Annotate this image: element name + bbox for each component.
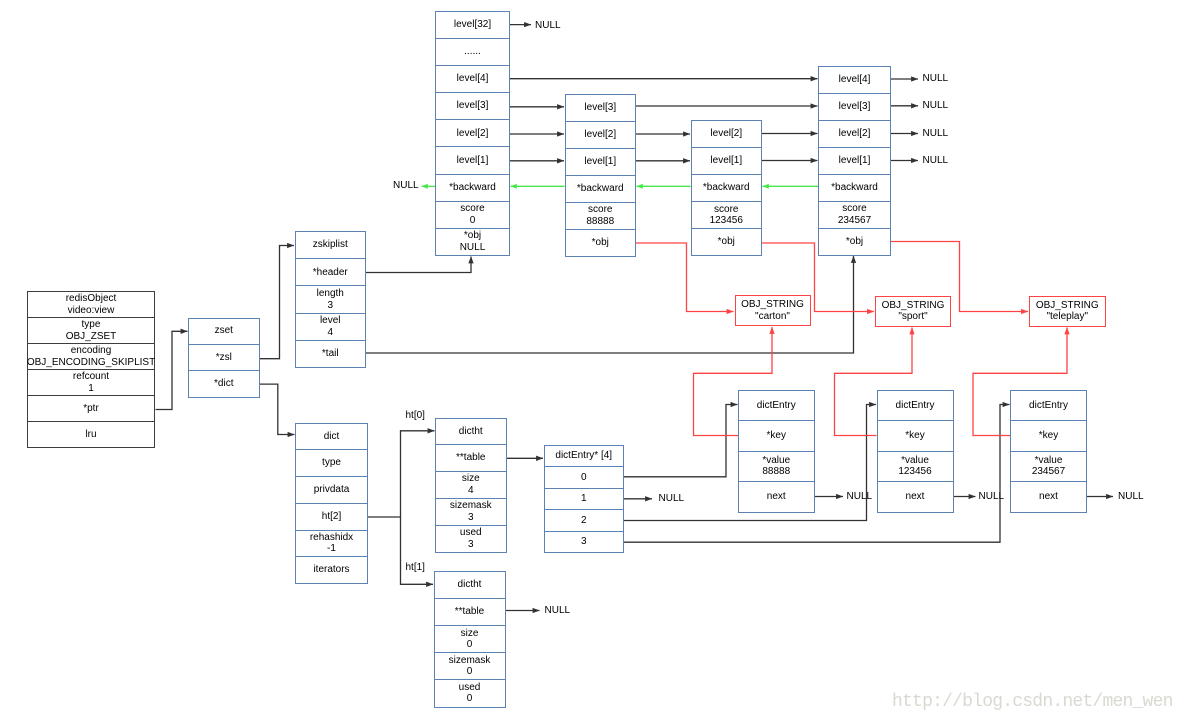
wire array row3 to dictEntry3 <box>624 405 1010 543</box>
node skiplist node2 score 88888 <box>565 94 637 257</box>
wire node1 backward to NULL <box>422 185 436 187</box>
wire dictEntry3 key to teleplay <box>973 328 1067 436</box>
wire node3 obj to OBJ_STRING sport <box>762 243 874 312</box>
wire node1 level[2] to node2 level[2] <box>510 133 564 135</box>
wire array row2 to dictEntry2 <box>624 405 876 521</box>
wire node2 level[2] to node3 level[2] <box>636 133 690 135</box>
wire node4 obj to OBJ_STRING teleplay <box>891 242 1028 312</box>
wire *tail to node4 bottom <box>366 256 854 353</box>
node zset <box>188 318 260 398</box>
label NULL node4 level4 <box>923 74 949 84</box>
wire node2 level[3] to node4 level[3] <box>636 105 818 107</box>
node zskiplist <box>295 231 367 368</box>
node skiplist header node1 <box>435 11 510 257</box>
label NULL dictEntry1 next <box>847 492 873 502</box>
label NULL node4 level1 <box>923 156 949 166</box>
wire *header to node1 bottom <box>366 257 472 273</box>
wire dictEntry1 key to carton <box>694 327 773 436</box>
wire dictEntry2 key to sport <box>835 328 913 436</box>
label NULL node4 level2 <box>923 129 949 139</box>
wire node1 level[4] to node4 level[4] <box>510 78 818 80</box>
wire node4 level[3] to NULL <box>891 105 918 107</box>
wire ht1 table NULL <box>506 610 540 612</box>
label NULL top <box>535 21 561 31</box>
wire dictEntry3 next to NULL <box>1087 496 1113 498</box>
wire node1 level[1] to node2 level[1] <box>510 160 564 162</box>
label NULL backward <box>393 181 419 191</box>
wire node4 level[4] to NULL <box>891 78 918 80</box>
node redisObject <box>27 291 155 448</box>
wire ht[2] to dictht2 <box>401 517 434 584</box>
label NULL dictEntry3 next <box>1118 492 1144 502</box>
wire node1 level[32] to NULL <box>510 24 531 26</box>
wire *zsl to zskiplist <box>259 246 294 359</box>
label ht1 <box>406 563 425 573</box>
wire node2 obj to OBJ_STRING carton <box>636 243 734 312</box>
wire node3 level[1] to node4 level[1] <box>762 160 818 162</box>
wire *ptr to zset <box>156 331 188 409</box>
wire *dict to dict <box>259 384 294 434</box>
wire dictEntry1 next to NULL <box>815 496 844 498</box>
watermark <box>892 692 1173 712</box>
node dictEntry array <box>544 445 625 554</box>
label NULL array row1 <box>659 494 685 504</box>
node skiplist node3 score 123456 <box>691 120 763 256</box>
node dictht ht1 <box>434 571 506 708</box>
wire node2 backward to node1 <box>511 185 565 187</box>
node dictEntry2 <box>877 390 954 513</box>
wire node3 level[2] to node4 level[2] <box>762 133 818 135</box>
node OBJ_STRING teleplay <box>1029 296 1106 327</box>
node dict <box>295 423 368 585</box>
wire node4 level[1] to NULL <box>891 160 918 162</box>
label NULL dictEntry2 next <box>979 492 1005 502</box>
label ht0 <box>406 411 425 421</box>
wire node2 level[1] to node3 level[1] <box>636 160 690 162</box>
node skiplist node4 score 234567 <box>818 66 891 256</box>
wire node4 level[2] to NULL <box>891 133 918 135</box>
label NULL ht1 table <box>545 606 571 616</box>
label NULL node4 level3 <box>923 101 949 111</box>
wire node3 backward to node2 <box>637 185 691 187</box>
wire ht[2] to dictht1 <box>368 431 435 517</box>
node dictEntry1 <box>738 390 815 513</box>
wire node1 level[3] to node2 level[3] <box>510 106 564 108</box>
wire **table to dictEntry array <box>507 457 544 459</box>
wire array row1 to NULL <box>624 498 652 500</box>
node dictEntry3 <box>1010 390 1087 513</box>
node OBJ_STRING sport <box>875 296 951 327</box>
wire dictEntry2 next to NULL <box>954 496 976 498</box>
wire node4 backward to node3 <box>763 185 819 187</box>
node OBJ_STRING carton <box>735 295 811 326</box>
node dictht ht0 <box>435 418 507 553</box>
wire array row0 to dictEntry1 <box>624 405 738 477</box>
